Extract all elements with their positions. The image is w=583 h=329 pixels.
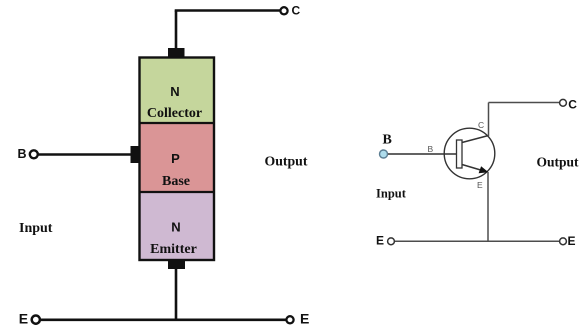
terminal B (left diagram) bbox=[30, 150, 38, 158]
P base region bbox=[140, 123, 215, 192]
terminal E left (left diagram) bbox=[32, 316, 40, 324]
emitter stroke (symbol) bbox=[462, 165, 484, 172]
svg-text:E: E bbox=[568, 234, 576, 248]
svg-text:Output: Output bbox=[537, 155, 580, 170]
svg-text:N: N bbox=[170, 84, 179, 99]
collector stroke (symbol) bbox=[462, 136, 489, 143]
divider P/N bbox=[139, 191, 215, 193]
svg-text:Input: Input bbox=[376, 187, 407, 201]
base contact pad bbox=[131, 146, 140, 163]
N emitter region bbox=[140, 192, 215, 260]
wire collector horizontal (left diagram) bbox=[175, 9, 280, 12]
terminal E left (symbol) bbox=[388, 238, 395, 245]
transistor symbol circle bbox=[444, 128, 495, 179]
svg-text:C: C bbox=[292, 4, 301, 18]
svg-text:B: B bbox=[428, 144, 434, 154]
svg-text:Output: Output bbox=[265, 154, 308, 169]
terminal C (left diagram) bbox=[280, 7, 287, 14]
terminal C (symbol) bbox=[560, 99, 567, 106]
wire emitter horizontal (left diagram) bbox=[40, 318, 286, 321]
terminal E right (left diagram) bbox=[286, 316, 293, 323]
svg-text:Collector: Collector bbox=[147, 106, 202, 121]
wire collector vertical (left diagram) bbox=[175, 11, 178, 51]
svg-text:E: E bbox=[376, 234, 384, 248]
divider N/P bbox=[139, 122, 215, 124]
transistor body outline bbox=[140, 58, 215, 261]
svg-text:P: P bbox=[171, 151, 180, 166]
svg-text:B: B bbox=[383, 133, 392, 148]
svg-text:Base: Base bbox=[162, 174, 190, 189]
svg-text:C: C bbox=[568, 98, 577, 112]
svg-text:E: E bbox=[477, 180, 483, 190]
svg-text:E: E bbox=[300, 310, 309, 326]
wire collector vertical (symbol) bbox=[488, 103, 490, 137]
svg-text:N: N bbox=[171, 220, 180, 235]
terminal E right (symbol) bbox=[560, 238, 567, 245]
N collector region bbox=[140, 58, 215, 124]
base bar bbox=[457, 140, 463, 168]
emitter arrowhead bbox=[479, 166, 489, 173]
svg-text:Input: Input bbox=[19, 221, 53, 236]
wire emitter horizontal (symbol) bbox=[395, 240, 560, 242]
wire base (left diagram) bbox=[38, 153, 131, 155]
wire emitter vertical (symbol) bbox=[487, 172, 489, 241]
wire base (symbol) bbox=[388, 153, 457, 155]
svg-text:Emitter: Emitter bbox=[150, 242, 197, 257]
collector contact pad bbox=[168, 48, 185, 58]
node B terminal (blue dot) bbox=[380, 150, 388, 158]
emitter contact pad bbox=[168, 260, 185, 269]
wire collector horizontal (symbol) bbox=[489, 102, 560, 104]
svg-text:B: B bbox=[18, 147, 27, 161]
wire emitter vertical (left diagram) bbox=[175, 268, 178, 320]
svg-text:E: E bbox=[19, 311, 28, 327]
svg-text:C: C bbox=[478, 120, 484, 130]
